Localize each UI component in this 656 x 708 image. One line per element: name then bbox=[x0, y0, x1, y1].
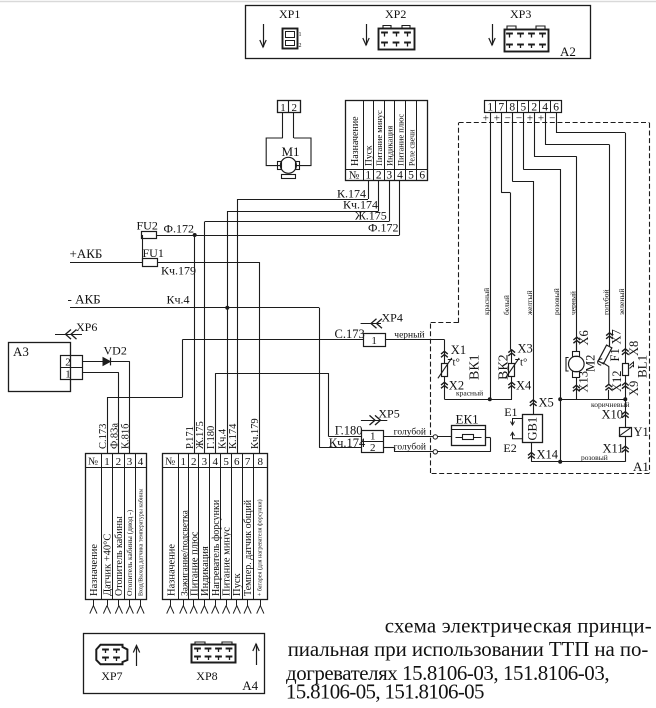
wire M1 pin1 bbox=[282, 113, 284, 138]
BK1-BK2 bottom rail (красный) bbox=[444, 399, 512, 401]
svg-text:X10: X10 bbox=[602, 407, 624, 421]
svg-text:красный: красный bbox=[482, 288, 491, 315]
junction dot rail/BL1 column bbox=[623, 397, 627, 401]
svg-text:Индикация: Индикация bbox=[385, 126, 395, 166]
svg-text:Назначение: Назначение bbox=[89, 544, 100, 596]
svg-text:5: 5 bbox=[408, 170, 414, 182]
svg-text:1: 1 bbox=[299, 32, 302, 38]
contact X6 bbox=[573, 337, 580, 340]
table2 bottom arrows bbox=[170, 600, 172, 606]
wire красный from strip pin 1 bbox=[490, 113, 492, 400]
svg-text:+ батарея (для нагревателя фор: + батарея (для нагревателя форсунки) bbox=[257, 499, 264, 596]
svg-text:4: 4 bbox=[397, 170, 403, 182]
svg-text:XP8: XP8 bbox=[196, 669, 217, 683]
wire table2 col6 (К.174) bbox=[237, 199, 239, 453]
svg-text:1: 1 bbox=[104, 456, 110, 468]
svg-text:желтый: желтый bbox=[525, 291, 534, 317]
svg-text:+: + bbox=[538, 113, 544, 125]
svg-text:Индикация: Индикация bbox=[200, 546, 211, 596]
bottom rail GB1-Y1 (розовый) bbox=[531, 461, 625, 463]
junction dot красный wire bbox=[488, 397, 492, 401]
wire to table1 col2 bbox=[118, 373, 120, 453]
wire F1 to X12 bbox=[603, 363, 609, 385]
svg-text:Питание минус: Питание минус bbox=[374, 110, 384, 166]
svg-text:Ж.175: Ж.175 bbox=[195, 421, 206, 449]
wire Кч.174 from table pin 2 bbox=[378, 181, 380, 211]
svg-text:X5: X5 bbox=[539, 396, 554, 410]
A3 pin box pins 2|1 bbox=[61, 356, 83, 380]
wire table2 col8 (Кч.179) bbox=[259, 262, 261, 453]
svg-text:E1: E1 bbox=[504, 405, 517, 419]
svg-text:VD2: VD2 bbox=[104, 344, 127, 358]
connector XP2 body bbox=[379, 29, 415, 50]
svg-text:розовый: розовый bbox=[581, 453, 608, 462]
svg-text:М2: М2 bbox=[584, 355, 598, 372]
XP7 insertion arrow bbox=[136, 646, 138, 667]
svg-text:Назначение: Назначение bbox=[166, 544, 177, 596]
svg-text:ВК2: ВК2 bbox=[497, 354, 512, 380]
block A2 outline bbox=[246, 6, 591, 59]
svg-text:5: 5 bbox=[223, 456, 229, 468]
wire черный XP4 to X1 bbox=[385, 339, 444, 341]
wire голубой from strip pin 4 bbox=[545, 113, 547, 145]
wire Кч.4 net to XP5 pin2 bbox=[319, 308, 321, 448]
svg-text:Пуск: Пуск bbox=[365, 145, 375, 166]
svg-text:GB1: GB1 bbox=[526, 417, 540, 441]
svg-text:Y1: Y1 bbox=[634, 425, 649, 439]
svg-text:1: 1 bbox=[181, 456, 187, 468]
wire FU2-FU1 tie bbox=[142, 235, 144, 262]
EK1 internal resistor bbox=[456, 437, 463, 439]
contact X14 bbox=[531, 443, 533, 462]
svg-text:BL1: BL1 bbox=[635, 355, 650, 378]
svg-text:пиальная при использовании ТТП: пиальная при использовании ТТП на по- bbox=[288, 637, 649, 661]
svg-text:Ф.172: Ф.172 bbox=[164, 222, 194, 236]
wire table2 col4 (Г.180) bbox=[215, 373, 217, 453]
wire черный from strip pin 2 bbox=[534, 113, 536, 157]
svg-text:X8: X8 bbox=[627, 341, 641, 356]
svg-text:2: 2 bbox=[376, 170, 382, 182]
svg-text:E2: E2 bbox=[503, 441, 516, 455]
junction dot Ф.172/column2 bbox=[193, 233, 197, 237]
svg-text:7: 7 bbox=[245, 456, 251, 468]
wire голубой XP5 pin2 to EK1 bbox=[384, 447, 395, 449]
svg-text:XP3: XP3 bbox=[510, 7, 531, 21]
svg-text:t°: t° bbox=[520, 357, 527, 369]
pass-through circle at A1 border pin2 wire bbox=[433, 450, 437, 454]
svg-text:XP1: XP1 bbox=[279, 7, 300, 21]
battery GB1 body bbox=[523, 415, 543, 443]
svg-text:−: − bbox=[505, 113, 511, 125]
connector XP3 insertion arrow bbox=[492, 24, 494, 45]
connector XP4 body pin 1 bbox=[364, 334, 386, 347]
motor M2 body bbox=[576, 343, 578, 351]
thermal fuse F1 body bbox=[609, 339, 611, 347]
contact X1 bbox=[441, 351, 448, 354]
svg-text:6: 6 bbox=[419, 170, 425, 182]
svg-text:1: 1 bbox=[370, 431, 376, 443]
svg-text:FU2: FU2 bbox=[137, 219, 158, 233]
svg-text:ВК1: ВК1 bbox=[468, 354, 483, 380]
A1 harness connector strip 1 7 8 5 2 4 6 bbox=[485, 101, 562, 113]
svg-text:8: 8 bbox=[258, 456, 264, 468]
wire зеленый from strip pin 6 bbox=[556, 113, 558, 133]
svg-text:3: 3 bbox=[386, 170, 392, 182]
wire to table1 col3 bbox=[129, 362, 131, 454]
svg-text:Вход/Выход датчика температуры: Вход/Выход датчика температуры кабины bbox=[138, 489, 145, 596]
wire X12 to rail bbox=[608, 390, 610, 399]
contact X2 bbox=[444, 376, 446, 388]
svg-text:X7: X7 bbox=[610, 329, 624, 344]
svg-text:Кч.179: Кч.179 bbox=[250, 418, 261, 449]
svg-text:Питание плюс: Питание плюс bbox=[396, 114, 406, 166]
svg-text:К.174: К.174 bbox=[228, 423, 239, 449]
svg-text:Г.180: Г.180 bbox=[335, 423, 363, 437]
diode VD2 bbox=[103, 358, 110, 366]
svg-text:А3: А3 bbox=[13, 344, 29, 359]
svg-text:А1: А1 bbox=[633, 459, 649, 474]
svg-text:XP4: XP4 bbox=[382, 311, 403, 325]
svg-text:голубой: голубой bbox=[394, 442, 426, 453]
svg-text:+АКБ: +АКБ bbox=[70, 246, 103, 261]
svg-text:зеленый: зеленый bbox=[617, 289, 626, 315]
wire table2 col3 (Ж.175) bbox=[204, 222, 206, 454]
junction dot розовый/bottom rail bbox=[558, 460, 562, 464]
motor M1 connector pins 1|2 bbox=[278, 101, 301, 113]
XP8 insertion arrow bbox=[256, 644, 258, 665]
M2/F1/BL1 bottom rail bbox=[560, 399, 625, 401]
table1 bottom arrows bbox=[93, 600, 95, 606]
wire to X10 bbox=[625, 399, 627, 427]
electrode E1 bbox=[511, 419, 523, 426]
contact X7 bbox=[606, 333, 613, 336]
svg-text:розовый: розовый bbox=[552, 288, 561, 315]
svg-text:X9: X9 bbox=[627, 381, 641, 396]
connector XP1 insertion arrow bbox=[263, 24, 265, 47]
svg-text:2: 2 bbox=[191, 456, 197, 468]
contact X12 bbox=[605, 384, 612, 387]
svg-text:красный: красный bbox=[456, 389, 483, 398]
block A1 dashed outline bbox=[459, 122, 650, 124]
svg-text:Кч.174: Кч.174 bbox=[329, 436, 366, 450]
wire Кч.4 from -АКБ bbox=[70, 307, 319, 309]
wire голубой XP5 pin1 to EK1 bbox=[384, 436, 452, 438]
svg-text:Отопитель кабины: Отопитель кабины bbox=[114, 516, 125, 596]
svg-text:черный: черный bbox=[569, 291, 578, 315]
svg-text:№: № bbox=[165, 457, 175, 468]
svg-text:№: № bbox=[88, 457, 98, 468]
svg-text:X13: X13 bbox=[577, 371, 591, 393]
svg-text:Отопитель кабины (диод -): Отопитель кабины (диод -) bbox=[125, 509, 134, 596]
svg-text:4: 4 bbox=[138, 456, 144, 468]
svg-text:t°: t° bbox=[453, 357, 460, 369]
scan artifact top edge bbox=[0, 1, 656, 3]
svg-text:- АКБ: - АКБ bbox=[68, 292, 101, 307]
svg-text:Датчик +40°С: Датчик +40°С bbox=[103, 534, 114, 596]
svg-text:XP2: XP2 bbox=[385, 7, 406, 21]
svg-text:Темпер. датчик общий: Темпер. датчик общий bbox=[243, 499, 254, 596]
svg-text:X14: X14 bbox=[537, 448, 559, 462]
connector XP1 body bbox=[283, 29, 298, 49]
wire С.173 net: table1 col1 to XP4 bbox=[107, 397, 109, 453]
svg-text:A2: A2 bbox=[560, 44, 576, 59]
svg-text:X3: X3 bbox=[518, 341, 533, 355]
wire BK2 to bottom rail bbox=[511, 388, 513, 399]
svg-text:С.173: С.173 bbox=[98, 424, 109, 449]
svg-text:A4: A4 bbox=[242, 678, 258, 693]
svg-text:−: − bbox=[549, 113, 555, 125]
svg-text:+: + bbox=[483, 113, 489, 125]
wire Кч.179 from FU1 bbox=[157, 262, 259, 264]
connector table 2 (8-pin) bbox=[163, 454, 268, 600]
fuse FU1 bbox=[143, 259, 158, 267]
svg-text:FU1: FU1 bbox=[143, 246, 164, 260]
thermistor BK2 body bbox=[511, 350, 513, 363]
wire Ф.172 from table pin 4 to fuse FU2 bbox=[399, 181, 401, 235]
connector XP2 insertion arrow bbox=[366, 24, 368, 45]
connector table 1 (4-pin) bbox=[86, 454, 147, 600]
fuse FU2 bbox=[142, 232, 157, 239]
svg-text:3: 3 bbox=[202, 456, 208, 468]
svg-text:№: № bbox=[349, 170, 360, 182]
svg-text:F1: F1 bbox=[608, 348, 622, 361]
svg-text:1: 1 bbox=[65, 369, 71, 381]
svg-text:2: 2 bbox=[299, 43, 302, 49]
svg-text:черный: черный bbox=[394, 329, 424, 340]
contact X10 bbox=[622, 412, 629, 415]
svg-text:Кч.4: Кч.4 bbox=[167, 293, 190, 307]
connector XP7 body bbox=[96, 645, 127, 665]
svg-text:ЕК1: ЕК1 bbox=[456, 412, 479, 427]
svg-text:1: 1 bbox=[280, 102, 286, 114]
svg-text:Ф.172: Ф.172 bbox=[368, 221, 398, 235]
svg-text:X6: X6 bbox=[577, 330, 591, 345]
connector XP6 symbol bbox=[55, 334, 82, 336]
svg-text:15.8106-05, 151.8106-05: 15.8106-05, 151.8106-05 bbox=[286, 679, 484, 703]
svg-text:Р.171: Р.171 bbox=[185, 426, 196, 449]
contact X4 bbox=[511, 376, 513, 388]
contact X11 bbox=[625, 436, 627, 462]
connector XP5 symbol bbox=[361, 420, 387, 422]
svg-text:XP5: XP5 bbox=[378, 407, 399, 421]
wire белый from strip pin 7 bbox=[501, 113, 503, 193]
svg-text:X1: X1 bbox=[451, 343, 466, 357]
contact X13 bbox=[576, 377, 578, 399]
svg-text:схема электрическая принци-: схема электрическая принци- bbox=[385, 614, 652, 638]
wire A3 pin1 bbox=[82, 372, 119, 374]
wire table2 col2 (Р.171) bbox=[194, 235, 196, 453]
svg-text:Кч.4: Кч.4 bbox=[217, 428, 228, 449]
svg-text:X4: X4 bbox=[516, 379, 532, 393]
wire розовый from strip pin 5 bbox=[523, 113, 525, 170]
svg-text:Назначение: Назначение bbox=[350, 116, 361, 166]
wire Г.180 net to XP5 pin1 bbox=[216, 373, 329, 375]
connector XP4 symbol bbox=[361, 323, 381, 325]
contact X9 bbox=[625, 375, 627, 399]
svg-text:1: 1 bbox=[371, 335, 377, 347]
connector XP8 body bbox=[192, 645, 236, 663]
contact X8 bbox=[622, 349, 629, 352]
electrode E2 bbox=[511, 432, 523, 439]
svg-text:XP7: XP7 bbox=[101, 669, 122, 683]
svg-text:С.173: С.173 bbox=[335, 327, 365, 341]
contact X5 bbox=[530, 400, 537, 403]
svg-text:6: 6 bbox=[234, 456, 240, 468]
svg-text:2: 2 bbox=[370, 442, 376, 454]
svg-text:+: + bbox=[527, 113, 533, 125]
svg-text:2: 2 bbox=[292, 102, 298, 114]
svg-text:Питание минус: Питание минус bbox=[222, 527, 233, 596]
wire BK1 to bottom rail bbox=[444, 388, 446, 399]
block A4 outline bbox=[84, 634, 265, 694]
svg-text:Кч.179: Кч.179 bbox=[161, 264, 196, 278]
svg-text:голубой: голубой bbox=[601, 289, 610, 315]
svg-text:голубой: голубой bbox=[394, 427, 426, 438]
svg-text:2: 2 bbox=[116, 456, 122, 468]
connector XP5 body pins 1|2 bbox=[362, 431, 384, 453]
wire table2 col5 (Кч.4) bbox=[227, 211, 229, 453]
contact X3 bbox=[508, 350, 515, 353]
connector XP3 body bbox=[505, 30, 549, 52]
pass-through circle at A1 border pin1 wire bbox=[433, 435, 437, 439]
svg-text:1: 1 bbox=[365, 170, 371, 182]
heater EK1 body bbox=[452, 426, 486, 446]
svg-text:3: 3 bbox=[127, 456, 133, 468]
svg-text:Питание плюс: Питание плюс bbox=[190, 531, 201, 596]
svg-text:Нагреватель форсунки: Нагреватель форсунки bbox=[211, 499, 222, 596]
wire К.174 from table pin 1 bbox=[368, 181, 370, 199]
junction dot розовый/rail bbox=[558, 397, 562, 401]
wire Ж.175 from table pin 3 bbox=[389, 181, 391, 222]
valve Y1 body bbox=[620, 428, 632, 437]
svg-text:Реле свечи: Реле свечи bbox=[408, 129, 417, 166]
wire +АКБ bbox=[70, 262, 142, 264]
wire желтый from strip pin 8 bbox=[512, 113, 514, 182]
svg-text:XP6: XP6 bbox=[76, 320, 97, 334]
svg-text:4: 4 bbox=[213, 456, 219, 468]
svg-text:Пуск: Пуск bbox=[232, 573, 243, 596]
svg-text:Г.180: Г.180 bbox=[206, 426, 217, 449]
sensor BL1 body bbox=[623, 364, 629, 376]
wire M1 pin2 bbox=[293, 113, 295, 138]
svg-text:2: 2 bbox=[65, 356, 71, 368]
M1 pin assignment table bbox=[346, 101, 428, 181]
svg-text:Ф.83а: Ф.83а bbox=[110, 423, 121, 449]
svg-text:+: + bbox=[494, 113, 500, 125]
wire A3 pin2 with diode VD2 bbox=[82, 361, 130, 363]
thermistor BK1 body bbox=[444, 351, 446, 363]
junction dot Кч.4/column5 bbox=[225, 306, 229, 310]
block A3 outline bbox=[9, 343, 71, 392]
svg-text:−: − bbox=[516, 113, 522, 125]
svg-text:К.81б: К.81б bbox=[121, 424, 132, 449]
svg-text:белый: белый bbox=[502, 295, 511, 315]
svg-text:М1: М1 bbox=[282, 144, 300, 159]
motor M1 body bbox=[266, 138, 283, 166]
